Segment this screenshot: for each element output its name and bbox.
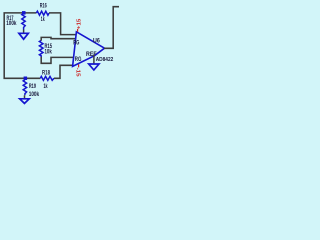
svg-text:RG: RG <box>73 39 79 46</box>
resistor R17 (vertical) <box>22 14 25 30</box>
svg-text:10k: 10k <box>45 50 53 56</box>
resistor R16 (horizontal, top) <box>36 11 49 15</box>
resistor R15 (vertical, gain) <box>39 40 43 57</box>
svg-text:100k: 100k <box>6 21 17 27</box>
wire: output to top-right <box>104 7 119 49</box>
op-amp U6 AD8422 (triangle) <box>73 32 105 67</box>
wire: R15 bottom to RG pin 2 <box>41 57 73 64</box>
node junction (bottom) <box>24 77 28 81</box>
svg-text:U6: U6 <box>93 38 100 44</box>
background <box>0 0 119 120</box>
wire: R18 to op-amp -input <box>54 65 73 78</box>
resistor R19 (vertical) <box>23 80 26 96</box>
wire: R15 top to RG pin 1 <box>41 37 76 40</box>
svg-text:1k: 1k <box>44 84 48 90</box>
node junction (top) <box>22 11 26 15</box>
svg-text:R19: R19 <box>29 84 37 90</box>
ground (REF pin) <box>93 55 95 64</box>
ground (below R19) <box>24 95 26 99</box>
+15 supply label <box>77 29 79 32</box>
wire: R16 to op-amp +input <box>49 13 76 35</box>
svg-text:100k: 100k <box>29 92 40 98</box>
ground (below R17) <box>23 30 25 34</box>
-15 supply label <box>78 64 80 67</box>
svg-text:AD8422: AD8422 <box>96 57 114 63</box>
resistor R18 (horizontal, bottom) <box>40 76 54 80</box>
wire: top rail + left rail + bottom rail <box>4 13 40 78</box>
svg-text:RG: RG <box>75 56 82 63</box>
svg-text:-15: -15 <box>75 68 81 78</box>
svg-text:+15: +15 <box>76 18 82 29</box>
svg-text:R16: R16 <box>40 4 47 10</box>
svg-text:R18: R18 <box>42 71 50 77</box>
svg-text:1k: 1k <box>41 17 45 23</box>
